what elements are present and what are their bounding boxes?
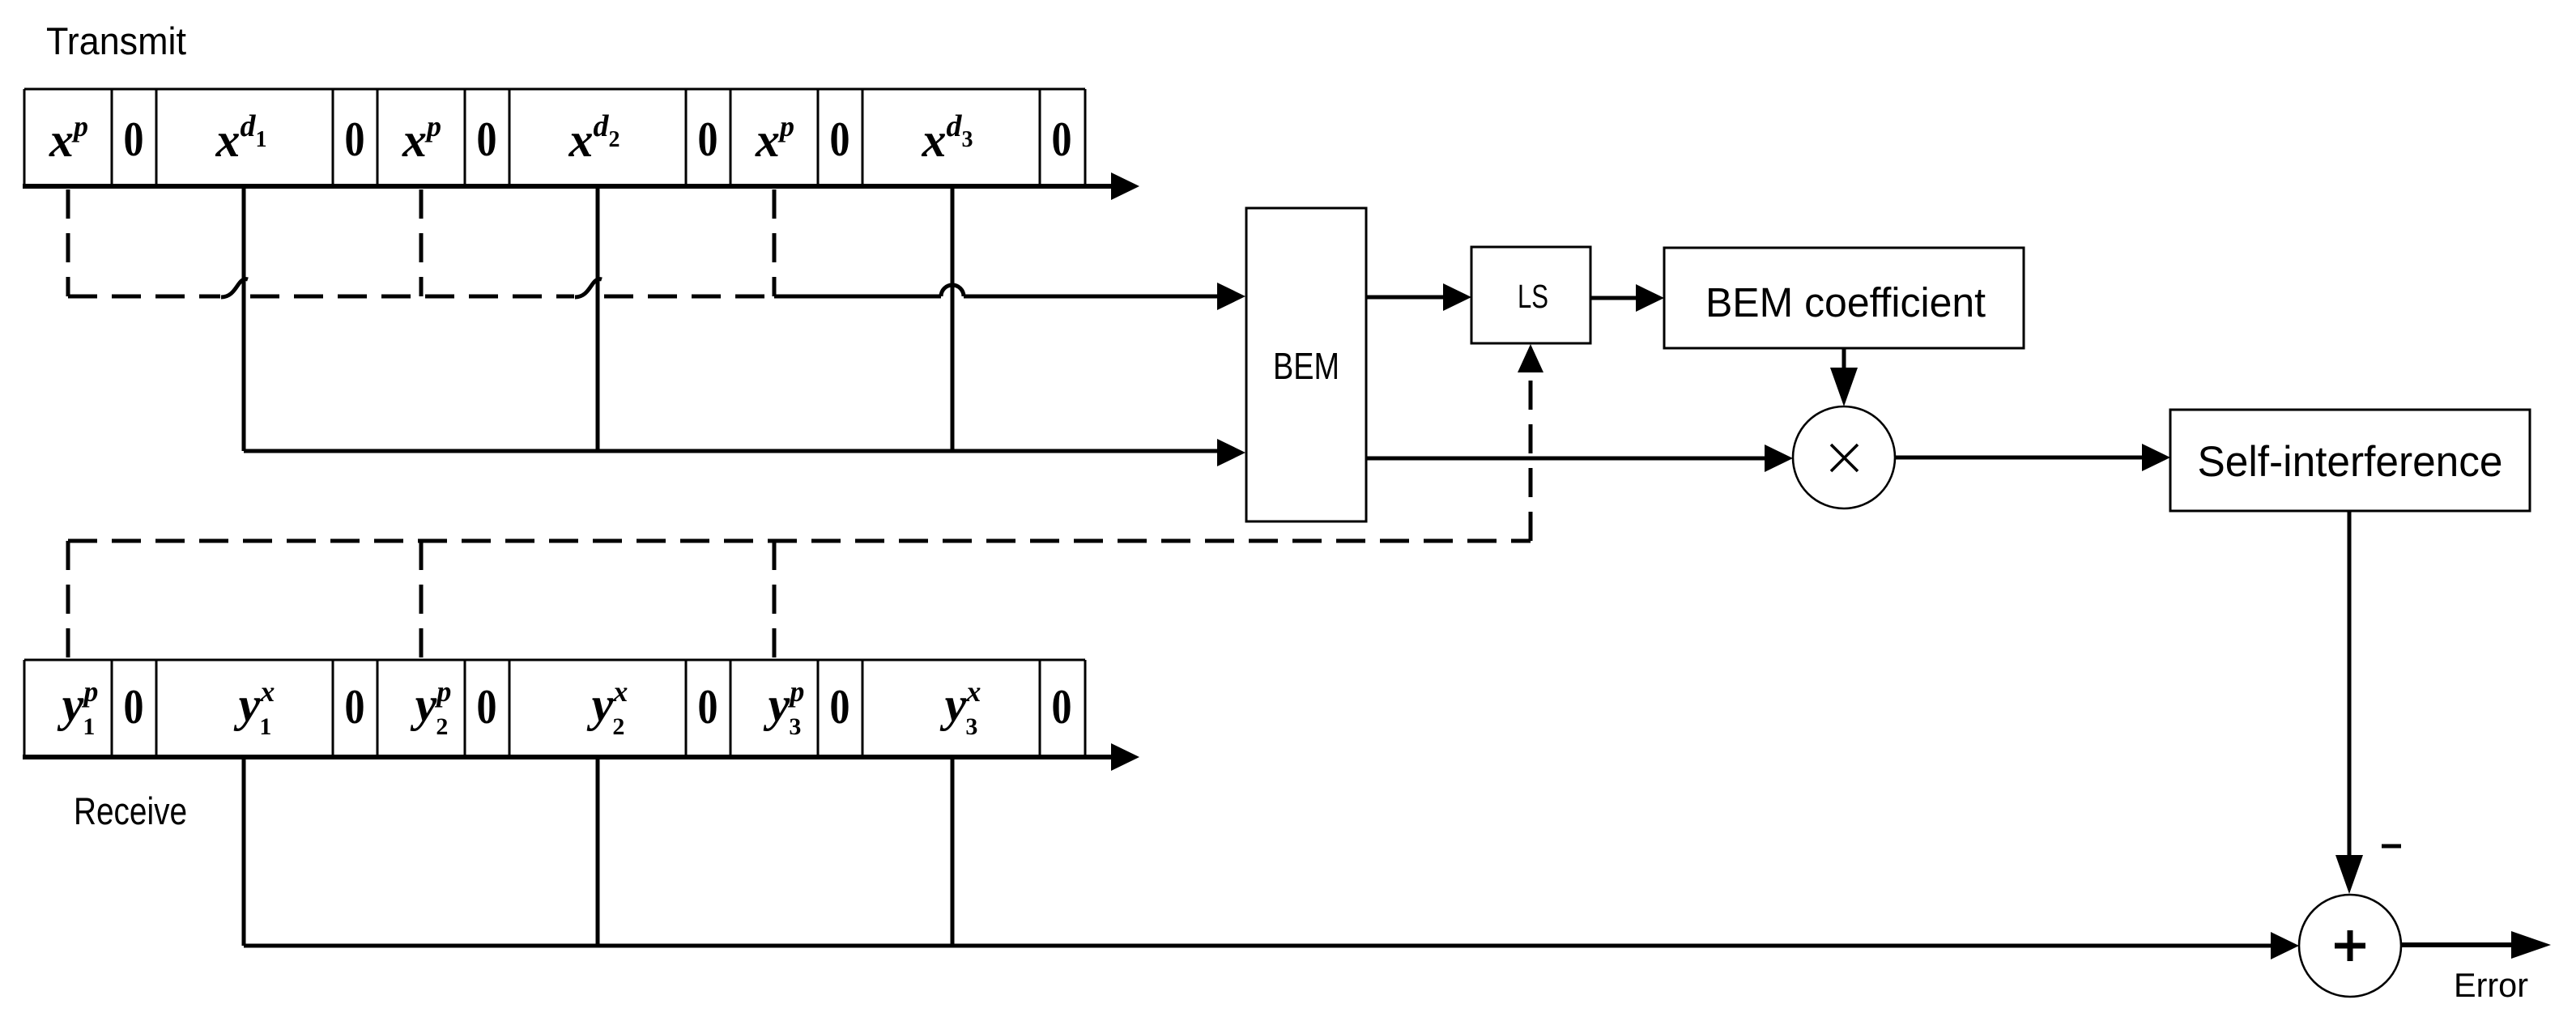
pilot dashed segment 2 bbox=[250, 295, 574, 299]
pilot dashed segment 3 bbox=[604, 295, 774, 299]
svg-text:Receive: Receive bbox=[74, 789, 187, 832]
pilot solid into BEM bbox=[964, 295, 1218, 299]
receive data vertical 2 bbox=[596, 757, 600, 946]
receive data vertical 1 bbox=[242, 757, 246, 946]
hop 3 bump bbox=[941, 285, 964, 296]
wire LS to BEM coefficient bbox=[1590, 296, 1637, 300]
transmit data vertical 2 bbox=[596, 186, 600, 451]
svg-text:0: 0 bbox=[830, 680, 850, 734]
receive feedback dashed vertical to LS bbox=[1529, 373, 1533, 541]
receive feedback dashed vertical 3 bbox=[773, 541, 777, 660]
svg-text:0: 0 bbox=[477, 113, 497, 166]
transmit data horizontal into BEM bbox=[244, 449, 1218, 453]
pilot solid segment bbox=[774, 295, 941, 299]
wire BEM to multiplier bbox=[1366, 457, 1765, 461]
transmit frame row borders bbox=[24, 89, 1085, 185]
hop 2 bbox=[575, 279, 602, 297]
pilot dashed stub 1 bbox=[66, 189, 70, 296]
transmit data vertical 1 bbox=[242, 186, 246, 451]
BEM box bbox=[1246, 208, 1366, 521]
svg-text:0: 0 bbox=[830, 113, 850, 166]
hop 1 bbox=[221, 279, 248, 297]
transmit axis arrow bbox=[23, 184, 1111, 189]
svg-text:Self-interference: Self-interference bbox=[2198, 438, 2503, 486]
multiplier node bbox=[1793, 406, 1895, 508]
minus sign bbox=[2382, 844, 2401, 849]
svg-text:BEM coefficient: BEM coefficient bbox=[1705, 279, 1986, 325]
svg-text:0: 0 bbox=[345, 680, 365, 734]
svg-text:0: 0 bbox=[345, 113, 365, 166]
wire BEM coefficient to multiplier bbox=[1842, 348, 1846, 368]
svg-text:0: 0 bbox=[1052, 680, 1072, 734]
adder node bbox=[2299, 895, 2401, 997]
wire BEM to LS bbox=[1366, 296, 1444, 300]
transmit data vertical 3 bbox=[951, 186, 955, 451]
svg-text:0: 0 bbox=[124, 113, 144, 166]
receive data horizontal to adder bbox=[244, 944, 2272, 948]
receive data vertical 3 bbox=[951, 757, 955, 946]
svg-text:Error: Error bbox=[2454, 966, 2528, 1004]
svg-text:Transmit: Transmit bbox=[46, 19, 186, 62]
wire multiplier to Self-interference bbox=[1895, 456, 2143, 460]
svg-text:0: 0 bbox=[698, 680, 718, 734]
svg-text:BEM: BEM bbox=[1273, 345, 1339, 387]
adder output arrow bbox=[2401, 942, 2514, 947]
svg-text:0: 0 bbox=[124, 680, 144, 734]
receive feedback dashed horizontal bbox=[68, 539, 1531, 543]
svg-text:LS: LS bbox=[1518, 278, 1548, 315]
receive axis arrow bbox=[23, 755, 1111, 759]
pilot dashed stub 3 bbox=[773, 189, 777, 296]
svg-text:0: 0 bbox=[1052, 113, 1072, 166]
pilot dashed horizontal bbox=[68, 295, 220, 299]
receive feedback dashed vertical 2 bbox=[419, 541, 424, 660]
receive frame row borders bbox=[24, 660, 1085, 756]
BEM coefficient box bbox=[1664, 248, 2024, 348]
receive feedback dashed vertical 1 bbox=[66, 541, 70, 660]
svg-text:0: 0 bbox=[698, 113, 718, 166]
wire Self-interference to adder bbox=[2348, 511, 2352, 856]
LS box bbox=[1471, 247, 1590, 343]
svg-text:0: 0 bbox=[477, 680, 497, 734]
Self-interference box bbox=[2170, 410, 2530, 511]
pilot dashed stub 2 bbox=[419, 189, 424, 296]
